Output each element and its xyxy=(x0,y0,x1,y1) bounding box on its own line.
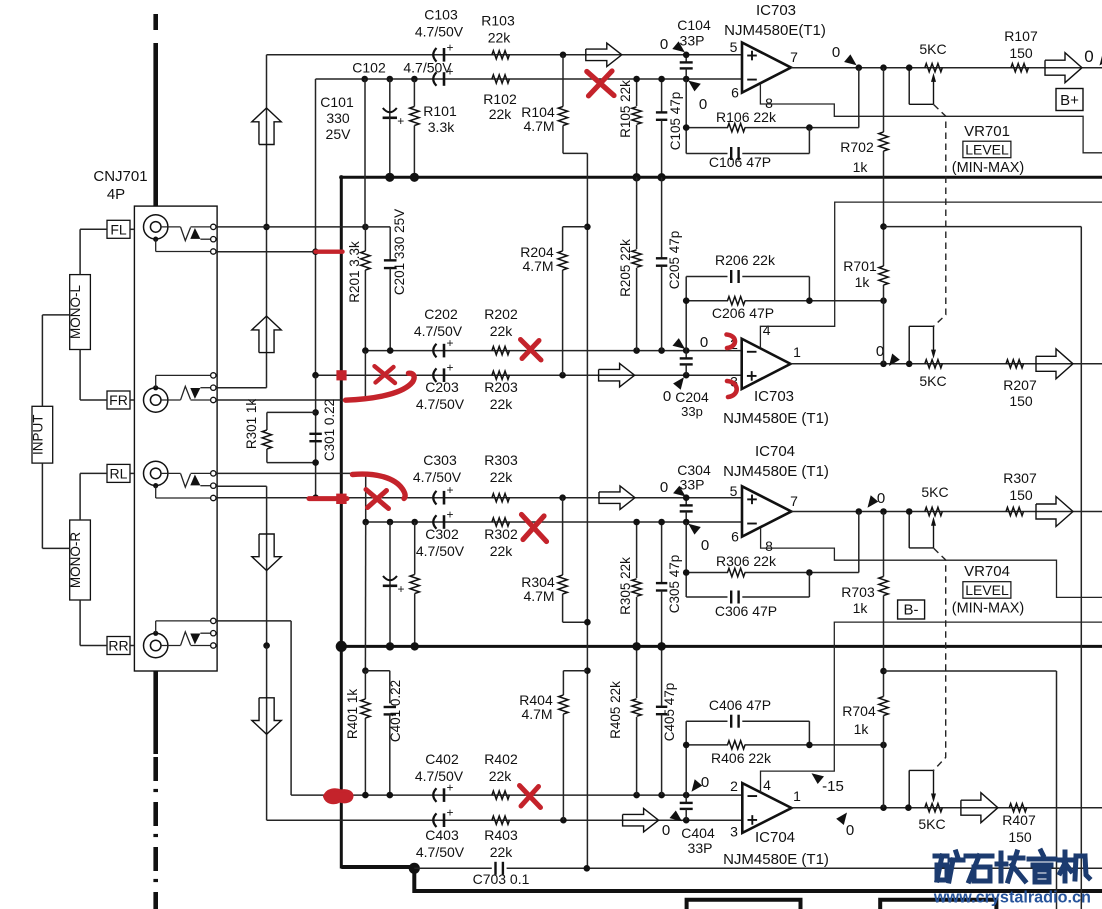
svg-text:3: 3 xyxy=(730,824,738,840)
node ch2 C205 xyxy=(658,347,665,354)
node ch3 pot return xyxy=(906,508,913,515)
svg-text:0: 0 xyxy=(662,822,670,839)
node ch3 fb-out xyxy=(856,508,863,515)
capacitor C106 (47P) feedback xyxy=(686,153,727,155)
node ch2 out fb xyxy=(880,361,887,368)
red X ch1 xyxy=(587,72,614,96)
wire ch1 minus to feedback xyxy=(685,79,687,154)
node ch3 cap bus2 xyxy=(386,642,394,650)
svg-text:MONO-L: MONO-L xyxy=(68,285,83,339)
svg-text:330: 330 xyxy=(326,110,350,126)
wire pin4 V- path ch4 (B- rail) xyxy=(761,622,1102,792)
node R201 top xyxy=(362,224,369,231)
svg-text:1: 1 xyxy=(793,788,801,804)
watermark char kuang xyxy=(935,854,947,859)
svg-text:0: 0 xyxy=(701,537,709,554)
signal arrow down 1 xyxy=(252,534,281,571)
potentiometer VR704a 5KC xyxy=(925,507,943,515)
svg-text:7: 7 xyxy=(790,49,798,65)
junction bus2-busV xyxy=(336,641,347,652)
svg-text:C206 47P: C206 47P xyxy=(712,305,774,321)
wire ch4 + input row B xyxy=(341,819,742,821)
resistor R207 (150) xyxy=(1006,360,1024,368)
svg-text:RL: RL xyxy=(110,465,128,481)
svg-text:www.crystalradio.cn: www.crystalradio.cn xyxy=(933,889,1091,907)
wire MONO-L to FR xyxy=(79,350,81,401)
input shield rail top dash xyxy=(153,14,158,30)
svg-text:C102: C102 xyxy=(352,60,386,76)
node C201 bottom xyxy=(387,347,394,354)
jack FR xyxy=(144,388,168,412)
wire RL box stub xyxy=(130,472,134,474)
node R703/R704 junction xyxy=(880,668,887,675)
wire RL to MONO-R xyxy=(80,472,107,474)
resistor R407 (150) xyxy=(1009,804,1027,812)
node R101 top xyxy=(411,76,418,83)
node R101 bus xyxy=(410,173,419,182)
node row R a xyxy=(362,519,369,526)
ground bus bottom jog (thick) xyxy=(341,867,1102,891)
node C405 bus2 xyxy=(657,642,665,650)
svg-text:4.7/50V: 4.7/50V xyxy=(403,60,452,76)
svg-text:6: 6 xyxy=(731,85,739,101)
resistor R303 xyxy=(492,494,510,502)
capacitor C306 (47P) feedback xyxy=(686,596,727,598)
capacitor C405 (47p) xyxy=(661,646,663,706)
node R702/R701 junction xyxy=(880,223,887,230)
label box FR xyxy=(107,391,130,409)
ground bus 2 (thick horizontal) xyxy=(340,645,1102,648)
signal arrow down 2 xyxy=(252,698,281,735)
node RR tip junction xyxy=(263,642,270,649)
svg-text:5KC: 5KC xyxy=(918,816,945,832)
node R305 top xyxy=(633,519,640,526)
svg-text:C104: C104 xyxy=(677,17,711,33)
capacitor C304 (33P) xyxy=(685,498,687,505)
wire R401/C401 top stub xyxy=(365,670,389,672)
resistor R105 (22k) xyxy=(636,79,638,106)
wire RR tip riser down xyxy=(266,646,268,821)
annotation 0 flag ch4 plus xyxy=(670,811,683,822)
signal arrow up 2 xyxy=(252,316,281,353)
resistor R703 (1k) xyxy=(883,512,885,577)
wire ch2 minus to feedback xyxy=(685,277,687,351)
svg-text:0: 0 xyxy=(699,96,707,113)
wire RR box stub xyxy=(130,645,134,647)
svg-text:R306 22k: R306 22k xyxy=(716,553,777,569)
svg-text:1k: 1k xyxy=(853,600,869,616)
svg-text:R704: R704 xyxy=(842,703,876,719)
svg-text:1: 1 xyxy=(793,344,801,360)
svg-text:22k: 22k xyxy=(490,844,514,860)
node R406 mid xyxy=(806,742,813,749)
svg-text:C303: C303 xyxy=(423,452,457,468)
svg-text:R103: R103 xyxy=(481,13,515,29)
svg-text:7: 7 xyxy=(790,493,798,509)
svg-text:4.7/50V: 4.7/50V xyxy=(416,844,465,860)
node ch1 pot return xyxy=(906,64,913,71)
capacitor ch3 electrolytic (unlabeled) xyxy=(389,522,391,585)
svg-text:6: 6 xyxy=(731,529,739,545)
svg-text:FL: FL xyxy=(110,221,127,237)
resistor R205 (22k) xyxy=(636,177,638,249)
wire ch4 - input row A xyxy=(341,794,742,796)
wire INPUT to MONO-R xyxy=(41,463,43,548)
box MONO-R xyxy=(70,520,91,600)
capacitor C404 (33P) xyxy=(685,795,687,802)
wire FR tip row xyxy=(216,399,366,401)
resistor R306 (22k) feedback xyxy=(686,572,728,574)
svg-text:25V: 25V xyxy=(326,126,352,142)
wire FL tip riser x=266.5 xyxy=(266,55,268,388)
wire pin8 V+ path xyxy=(760,84,1102,153)
wire FR box stub xyxy=(130,399,134,401)
svg-text:0: 0 xyxy=(660,36,668,53)
svg-text:4.7/50V: 4.7/50V xyxy=(415,24,464,40)
capacitor C206 (47P) feedback xyxy=(686,276,727,278)
signal arrow ch2 out xyxy=(1036,349,1073,379)
op-amp IC704 unit A xyxy=(742,783,791,833)
svg-text:LEVEL: LEVEL xyxy=(965,582,1009,598)
resistor R201 (3.3k) xyxy=(364,227,366,251)
node C703 rail xyxy=(584,865,591,872)
svg-text:CNJ701: CNJ701 xyxy=(93,168,147,185)
watermark char shi xyxy=(966,854,992,859)
node C401 bottom xyxy=(387,792,394,799)
svg-text:5: 5 xyxy=(730,483,738,499)
node C101 bus xyxy=(385,173,394,182)
svg-text:C404: C404 xyxy=(681,825,715,841)
annotation 0 flag ch2 plus xyxy=(673,377,684,390)
resistor R302 xyxy=(492,518,510,526)
svg-text:R302: R302 xyxy=(484,526,518,542)
svg-text:R202: R202 xyxy=(484,306,518,322)
label LEVEL boxed ch4 xyxy=(963,582,1011,599)
svg-text:0: 0 xyxy=(846,822,854,839)
wire ch3 output xyxy=(791,511,1102,513)
svg-text:+: + xyxy=(446,508,453,522)
svg-text:33P: 33P xyxy=(688,840,713,856)
svg-text:R701: R701 xyxy=(843,258,877,274)
wire FL sleeve riser x=315.5 xyxy=(315,79,317,375)
svg-text:C402: C402 xyxy=(425,751,459,767)
red mark ch2 pin3 squiggle xyxy=(727,381,737,397)
node ch2 pot return xyxy=(906,361,913,368)
wire pin4 V- path ch2 xyxy=(760,202,1102,348)
label box FL xyxy=(107,220,130,238)
svg-text:C306 47P: C306 47P xyxy=(715,603,777,619)
resistor R704 (1k) xyxy=(883,671,885,697)
node C204 top xyxy=(683,347,690,354)
svg-text:R201 3.3k: R201 3.3k xyxy=(347,241,362,303)
resistor R301 (1k) xyxy=(262,430,271,449)
node R401 top xyxy=(362,667,369,674)
watermark char yin xyxy=(1041,851,1043,855)
input shield rail solid xyxy=(153,43,158,206)
resistor R401 (1k) xyxy=(364,671,366,699)
connector CNJ701 box xyxy=(134,206,217,671)
svg-text:C202: C202 xyxy=(424,306,458,322)
svg-text:C201 330 25V: C201 330 25V xyxy=(392,209,407,295)
svg-text:R203: R203 xyxy=(484,379,518,395)
svg-text:B+: B+ xyxy=(1060,92,1079,109)
capacitor C203 xyxy=(433,368,436,382)
svg-text:R406 22k: R406 22k xyxy=(711,750,772,766)
annotation 0 flag ch2 minus xyxy=(673,338,686,349)
svg-text:NJM4580E (T1): NJM4580E (T1) xyxy=(723,463,829,480)
wire ch2 - input row xyxy=(365,350,742,352)
svg-text:IC704: IC704 xyxy=(755,829,795,846)
red segment ch3 xyxy=(309,496,347,501)
label box RR xyxy=(107,637,130,655)
node R306 left xyxy=(683,569,690,576)
node C105 top xyxy=(658,76,665,83)
node ch3 R703 top xyxy=(880,508,887,515)
signal arrow ch3 in xyxy=(599,486,635,510)
node R206 mid xyxy=(806,297,813,304)
potentiometer VR701b 5KC xyxy=(925,360,943,368)
jack FL xyxy=(144,215,168,239)
capacitor C105 (47p) xyxy=(661,79,663,112)
red X ch2 xyxy=(375,366,396,383)
svg-text:150: 150 xyxy=(1008,829,1032,845)
wire pin8 V+ path ch3 xyxy=(761,528,1102,597)
svg-text:C204: C204 xyxy=(675,389,709,405)
svg-text:C703 0.1: C703 0.1 xyxy=(473,871,530,887)
svg-text:5: 5 xyxy=(730,39,738,55)
svg-text:-15: -15 xyxy=(822,778,844,795)
svg-text:R206 22k: R206 22k xyxy=(715,252,776,268)
svg-text:4.7M: 4.7M xyxy=(521,706,552,722)
capacitor C102 xyxy=(433,72,436,86)
svg-text:NJM4580E(T1): NJM4580E(T1) xyxy=(724,22,826,39)
resistor R204 (4.7M) xyxy=(584,224,591,231)
wire RL tip row P xyxy=(216,472,366,474)
capacitor C101 (electrolytic) xyxy=(389,79,391,117)
svg-text:R207: R207 xyxy=(1003,377,1037,393)
resistor R402 xyxy=(492,791,510,799)
node R104 top xyxy=(560,52,567,59)
svg-text:C302: C302 xyxy=(425,526,459,542)
node C105 bus xyxy=(657,173,665,181)
svg-text:C105 47p: C105 47p xyxy=(668,92,683,151)
svg-text:4.7/50V: 4.7/50V xyxy=(413,469,462,485)
node ch1 R702 top xyxy=(880,64,887,71)
resistor R106 (22k) feedback xyxy=(686,127,728,129)
node R106 right xyxy=(806,124,813,131)
bottom block 1 (thick box) xyxy=(687,900,801,909)
resistor R103 xyxy=(492,51,510,59)
node R401 bottom xyxy=(362,792,369,799)
svg-text:0: 0 xyxy=(701,774,709,791)
annotation 0 flag ch4 out xyxy=(836,813,847,826)
resistor R305 (22k) xyxy=(636,522,638,578)
svg-text:0: 0 xyxy=(663,388,671,405)
svg-text:4.7M: 4.7M xyxy=(523,588,554,604)
wire ch3 - input row R xyxy=(366,521,742,523)
svg-text:INPUT: INPUT xyxy=(30,414,45,455)
svg-text:0: 0 xyxy=(1084,47,1093,66)
svg-text:R307: R307 xyxy=(1003,470,1037,486)
svg-text:C305 47p: C305 47p xyxy=(667,555,682,614)
junction bottom bus / C703 row xyxy=(409,863,420,874)
svg-text:C205 47p: C205 47p xyxy=(667,231,682,290)
svg-text:C101: C101 xyxy=(320,94,354,110)
svg-text:C403: C403 xyxy=(425,827,459,843)
box MONO-L xyxy=(70,275,91,350)
svg-text:22k: 22k xyxy=(489,768,513,784)
svg-text:+: + xyxy=(446,361,453,375)
capacitor C302 xyxy=(433,515,436,529)
capacitor C201 (330/25V) xyxy=(384,259,397,261)
op-amp IC703 unit B xyxy=(742,43,791,93)
node R306 right xyxy=(806,569,813,576)
red jumper FL sleeve xyxy=(316,249,343,253)
svg-text:22k: 22k xyxy=(490,396,514,412)
node R404 bottom xyxy=(560,817,567,824)
svg-text:(MIN-MAX): (MIN-MAX) xyxy=(952,160,1025,176)
resistor R107 (150) xyxy=(1011,63,1029,71)
svg-text:4.7M: 4.7M xyxy=(522,258,553,274)
dashed gang line VR704 xyxy=(934,548,946,770)
potentiometer VR701a 5KC xyxy=(925,63,943,71)
svg-text:2: 2 xyxy=(730,778,738,794)
node C204 bottom xyxy=(683,372,690,379)
svg-text:C406 47P: C406 47P xyxy=(709,697,771,713)
jack RL xyxy=(144,461,168,485)
node FR sleeve cross xyxy=(312,372,319,379)
svg-text:R402: R402 xyxy=(484,751,518,767)
capacitor C103 xyxy=(433,48,436,62)
capacitor C205 (47p) xyxy=(661,177,663,258)
ground bus 1 (thick horizontal) xyxy=(340,176,1102,179)
svg-text:C103: C103 xyxy=(424,7,458,23)
capacitor C406 (47P) feedback xyxy=(686,720,727,722)
wire FL to MONO-L xyxy=(80,228,107,230)
svg-text:22k: 22k xyxy=(488,30,512,46)
node R304 top xyxy=(559,494,566,501)
svg-text:C203: C203 xyxy=(425,379,459,395)
svg-text:4: 4 xyxy=(763,322,771,338)
wire x315 riser to ch3 xyxy=(315,375,317,498)
wire INPUT to MONO-L xyxy=(41,315,43,406)
svg-text:22k: 22k xyxy=(490,543,514,559)
resistor R701 (1k) xyxy=(883,227,885,266)
resistor R307 (150) xyxy=(1006,507,1024,515)
svg-text:4.7/50V: 4.7/50V xyxy=(415,768,464,784)
resistor R404 (4.7M) xyxy=(584,667,591,674)
svg-text:VR701: VR701 xyxy=(964,123,1010,140)
box INPUT xyxy=(32,406,53,463)
node R204 bottom xyxy=(559,372,566,379)
node ch2 R205 xyxy=(633,347,640,354)
svg-text:+: + xyxy=(446,40,453,54)
node C305 bus2 xyxy=(657,642,665,650)
red square ch3 xyxy=(336,494,346,504)
red X ch3 xyxy=(366,490,389,509)
red X ch2 after R202 xyxy=(521,340,542,361)
svg-text:33P: 33P xyxy=(680,477,705,493)
svg-text:R303: R303 xyxy=(484,452,518,468)
node ch1 fb-out xyxy=(856,64,863,71)
resistor R203 xyxy=(492,371,510,379)
svg-text:NJM4580E (T1): NJM4580E (T1) xyxy=(723,410,829,427)
svg-text:R702: R702 xyxy=(840,139,874,155)
watermark char shou xyxy=(999,853,1004,881)
node C104 bottom xyxy=(683,76,690,83)
signal arrow ch4 out xyxy=(961,793,998,823)
svg-text:150: 150 xyxy=(1009,487,1033,503)
svg-text:R102: R102 xyxy=(483,91,517,107)
node C101 top xyxy=(387,76,394,83)
resistor R206 (22k) feedback xyxy=(686,300,728,302)
svg-text:4.7/50V: 4.7/50V xyxy=(416,396,465,412)
resistor R101 xyxy=(413,79,415,107)
input shield rail below box xyxy=(153,671,158,754)
capacitor C204 (33p) xyxy=(685,351,687,358)
label B+ box xyxy=(1056,89,1083,111)
signal arrow ch3 out xyxy=(1036,497,1073,527)
svg-text:3.3k: 3.3k xyxy=(428,119,455,135)
svg-text:8: 8 xyxy=(765,538,773,554)
capacitor C401 (0.22) xyxy=(384,706,396,708)
svg-text:FR: FR xyxy=(109,392,128,408)
node FL sleeve xyxy=(312,248,319,255)
watermark char ji xyxy=(1063,852,1068,881)
wire R301 top stub xyxy=(267,411,316,413)
svg-text:B-: B- xyxy=(904,602,919,619)
annotation 0 flag ch3 minus xyxy=(688,524,701,535)
node C104 top xyxy=(683,52,690,59)
node R301 bottom xyxy=(312,459,319,466)
svg-text:R105 22k: R105 22k xyxy=(618,80,633,138)
op-amp IC704 unit B xyxy=(742,486,791,536)
node R301 top xyxy=(312,409,319,416)
annotation -15 flag xyxy=(812,773,825,784)
node R406 right xyxy=(880,742,887,749)
svg-text:C401 0.22: C401 0.22 xyxy=(388,680,403,742)
svg-text:4.7/50V: 4.7/50V xyxy=(414,323,463,339)
capacitor C104 (33P) xyxy=(685,55,687,62)
input shield rail dash-dot xyxy=(153,757,158,781)
wire FL sleeve row xyxy=(216,251,316,253)
wire ch34 mono node right xyxy=(884,670,1057,672)
svg-text:4.7M: 4.7M xyxy=(523,118,554,134)
capacitor C303 xyxy=(433,491,436,505)
node R106 left xyxy=(683,124,690,131)
wire x365 riser ch3-ch4 xyxy=(364,522,366,671)
svg-text:0: 0 xyxy=(832,44,840,61)
resistor ch3 bias (unlabeled) xyxy=(414,522,416,575)
svg-text:(MIN-MAX): (MIN-MAX) xyxy=(952,601,1025,617)
svg-text:R405 22k: R405 22k xyxy=(608,681,623,739)
svg-text:0: 0 xyxy=(660,479,668,496)
red mark ch2 pin2 squiggle xyxy=(727,335,736,349)
resistor R304 (4.7M) xyxy=(562,498,564,575)
resistor R702 (1k) xyxy=(883,68,885,132)
wire ch3 + input row Q xyxy=(216,497,742,499)
wire ch1 - input row xyxy=(316,78,743,80)
wire MONO-R to RR xyxy=(79,600,81,646)
red blob ch4 xyxy=(325,790,353,803)
capacitor C305 (47p) xyxy=(661,522,663,583)
svg-text:LEVEL: LEVEL xyxy=(965,142,1009,158)
label box RL xyxy=(107,464,130,482)
red jumper curve ch2 xyxy=(346,373,415,400)
jack RR xyxy=(144,633,168,657)
svg-text:4P: 4P xyxy=(107,186,125,203)
svg-text:VR704: VR704 xyxy=(964,563,1010,580)
